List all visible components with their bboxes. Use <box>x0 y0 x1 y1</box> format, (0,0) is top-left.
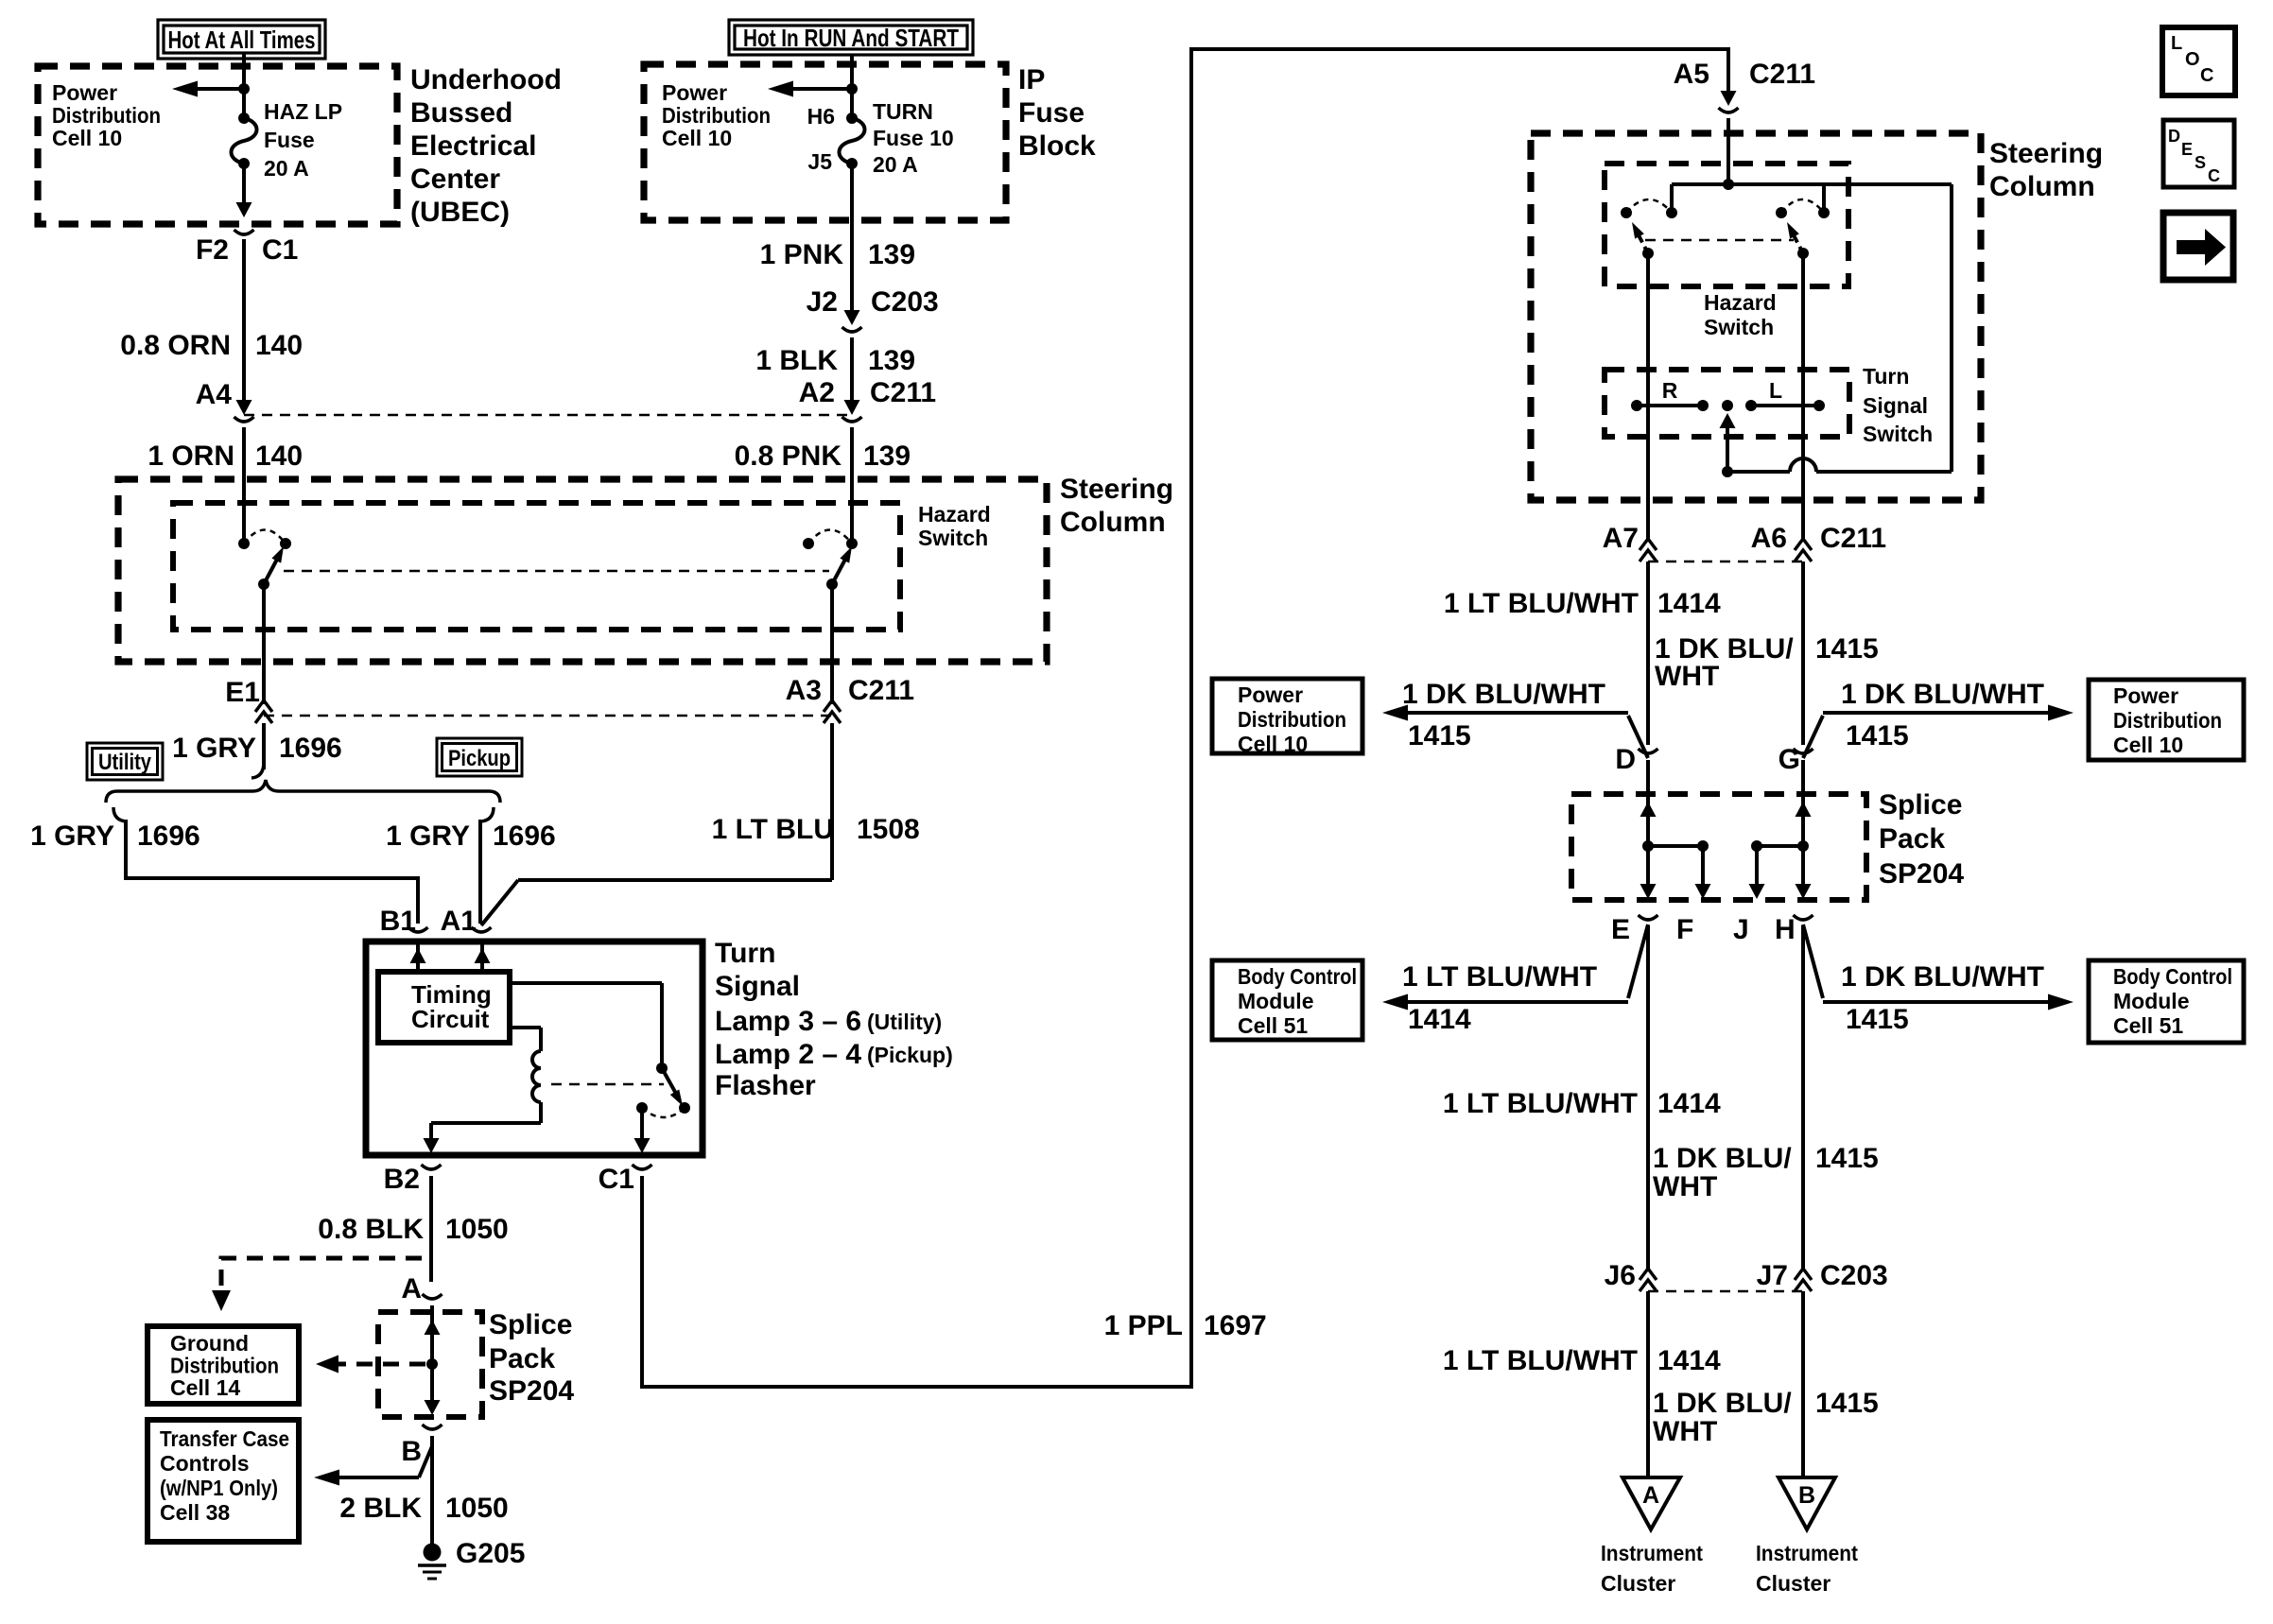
svg-text:Switch: Switch <box>1863 422 1933 446</box>
svg-text:Block: Block <box>1018 130 1096 162</box>
svg-text:Steering: Steering <box>1060 474 1173 505</box>
svg-text:140: 140 <box>255 441 303 472</box>
svg-text:Steering: Steering <box>1989 138 2103 169</box>
svg-text:Lamp 2 – 4: Lamp 2 – 4 <box>715 1039 861 1070</box>
svg-text:A: A <box>401 1273 422 1304</box>
svg-text:1 GRY: 1 GRY <box>172 733 256 764</box>
svg-text:C211: C211 <box>1820 523 1886 554</box>
svg-text:Switch: Switch <box>1704 315 1774 339</box>
svg-text:2 BLK: 2 BLK <box>339 1493 422 1524</box>
svg-text:139: 139 <box>868 345 915 376</box>
svg-text:Utility: Utility <box>98 750 152 775</box>
svg-text:(UBEC): (UBEC) <box>410 197 510 228</box>
svg-text:Cluster: Cluster <box>1756 1571 1831 1596</box>
svg-text:Pack: Pack <box>1879 823 1945 855</box>
svg-text:1 GRY: 1 GRY <box>386 821 470 852</box>
svg-text:Fuse: Fuse <box>264 128 315 152</box>
svg-text:Power: Power <box>2113 683 2178 708</box>
svg-text:J5: J5 <box>807 149 832 174</box>
svg-text:A1: A1 <box>441 906 477 937</box>
svg-text:Turn: Turn <box>715 938 775 969</box>
svg-text:1415: 1415 <box>1815 633 1879 665</box>
svg-text:Module: Module <box>2113 989 2190 1013</box>
svg-text:0.8 PNK: 0.8 PNK <box>735 441 842 472</box>
svg-text:1 DK BLU/WHT: 1 DK BLU/WHT <box>1402 679 1605 710</box>
svg-text:A4: A4 <box>196 379 233 410</box>
svg-text:E: E <box>1611 914 1630 945</box>
svg-text:Column: Column <box>1060 507 1166 538</box>
svg-text:1 DK BLU/: 1 DK BLU/ <box>1653 1143 1792 1174</box>
svg-text:Ground: Ground <box>170 1331 249 1356</box>
svg-text:Cluster: Cluster <box>1601 1571 1675 1596</box>
svg-text:1 DK BLU/: 1 DK BLU/ <box>1653 1388 1792 1419</box>
svg-text:A2: A2 <box>799 377 835 408</box>
svg-text:1415: 1415 <box>1846 720 1909 752</box>
svg-text:0.8 BLK: 0.8 BLK <box>318 1214 424 1245</box>
svg-text:Column: Column <box>1989 171 2095 202</box>
svg-text:Flasher: Flasher <box>715 1070 816 1101</box>
svg-text:(Pickup): (Pickup) <box>867 1043 953 1067</box>
svg-text:Circuit: Circuit <box>411 1005 490 1033</box>
svg-text:Cell 51: Cell 51 <box>1238 1013 1308 1038</box>
svg-text:Splice: Splice <box>1879 789 1962 821</box>
svg-text:Power: Power <box>1238 682 1303 707</box>
svg-text:S: S <box>2195 153 2206 172</box>
svg-text:Hazard: Hazard <box>1704 290 1777 315</box>
svg-text:C211: C211 <box>1749 59 1815 90</box>
svg-text:1697: 1697 <box>1204 1310 1267 1341</box>
svg-text:Power: Power <box>662 80 727 105</box>
svg-text:1050: 1050 <box>445 1493 509 1524</box>
svg-text:J: J <box>1733 914 1749 945</box>
svg-text:D: D <box>1615 744 1636 775</box>
svg-text:Electrical: Electrical <box>410 130 536 162</box>
svg-text:Pickup: Pickup <box>448 746 511 771</box>
svg-text:Underhood: Underhood <box>410 64 562 95</box>
svg-text:1 GRY: 1 GRY <box>30 821 114 852</box>
svg-text:1696: 1696 <box>279 733 342 764</box>
svg-text:F2: F2 <box>196 234 229 266</box>
svg-text:20 A: 20 A <box>873 152 918 177</box>
svg-text:1 PPL: 1 PPL <box>1104 1310 1183 1341</box>
svg-text:1 DK BLU/WHT: 1 DK BLU/WHT <box>1841 961 2044 993</box>
svg-text:1414: 1414 <box>1657 1345 1721 1376</box>
svg-text:Distribution: Distribution <box>2113 708 2222 733</box>
svg-text:C203: C203 <box>1820 1260 1888 1291</box>
svg-text:J2: J2 <box>807 286 838 318</box>
svg-text:F: F <box>1676 914 1693 945</box>
svg-text:Instrument: Instrument <box>1756 1541 1858 1565</box>
svg-text:Cell 51: Cell 51 <box>2113 1013 2183 1038</box>
svg-text:E1: E1 <box>225 677 260 708</box>
svg-text:Hot In RUN And START: Hot In RUN And START <box>743 24 959 52</box>
svg-text:Cell 10: Cell 10 <box>2113 733 2183 757</box>
svg-text:Body Control: Body Control <box>2113 964 2232 989</box>
svg-text:Distribution: Distribution <box>52 103 161 128</box>
svg-text:1 LT BLU/WHT: 1 LT BLU/WHT <box>1402 961 1597 993</box>
svg-text:TURN: TURN <box>873 99 933 124</box>
svg-text:(w/NP1 Only): (w/NP1 Only) <box>160 1476 278 1500</box>
svg-text:C: C <box>2208 166 2220 185</box>
svg-text:SP204: SP204 <box>1879 858 1964 890</box>
svg-text:C211: C211 <box>848 675 914 706</box>
svg-text:L: L <box>2171 33 2182 54</box>
svg-text:1414: 1414 <box>1657 1088 1721 1119</box>
svg-text:Signal: Signal <box>1863 393 1928 418</box>
svg-text:Splice: Splice <box>489 1309 572 1340</box>
svg-text:1415: 1415 <box>1815 1143 1879 1174</box>
svg-text:1508: 1508 <box>857 814 920 845</box>
svg-text:WHT: WHT <box>1655 661 1719 692</box>
svg-text:A3: A3 <box>786 675 822 706</box>
svg-text:Cell 38: Cell 38 <box>160 1500 230 1525</box>
svg-text:139: 139 <box>868 239 915 270</box>
svg-text:1696: 1696 <box>493 821 556 852</box>
svg-text:Controls: Controls <box>160 1451 250 1476</box>
svg-text:Hot At All Times: Hot At All Times <box>168 26 316 54</box>
svg-text:1415: 1415 <box>1815 1388 1879 1419</box>
svg-text:1415: 1415 <box>1846 1004 1909 1035</box>
svg-text:1 DK BLU/WHT: 1 DK BLU/WHT <box>1841 679 2044 710</box>
svg-text:1 BLK: 1 BLK <box>755 345 838 376</box>
svg-text:HAZ LP: HAZ LP <box>264 99 342 124</box>
svg-text:B2: B2 <box>384 1164 420 1195</box>
svg-text:Cell 10: Cell 10 <box>52 126 122 150</box>
svg-text:Fuse: Fuse <box>1018 97 1084 129</box>
svg-text:139: 139 <box>863 441 911 472</box>
svg-text:G: G <box>1778 744 1800 775</box>
svg-text:1050: 1050 <box>445 1214 509 1245</box>
svg-text:Distribution: Distribution <box>662 103 771 128</box>
svg-text:C1: C1 <box>599 1164 634 1195</box>
svg-text:1414: 1414 <box>1657 588 1721 619</box>
svg-text:Pack: Pack <box>489 1343 555 1374</box>
svg-text:Cell 10: Cell 10 <box>1238 732 1308 756</box>
svg-text:B: B <box>1798 1482 1815 1509</box>
svg-text:WHT: WHT <box>1653 1416 1717 1447</box>
svg-text:1 LT BLU/WHT: 1 LT BLU/WHT <box>1443 1345 1638 1376</box>
svg-text:Hazard: Hazard <box>918 502 991 527</box>
svg-text:1 LT BLU: 1 LT BLU <box>712 814 834 845</box>
svg-text:20 A: 20 A <box>264 156 309 181</box>
svg-text:Turn: Turn <box>1863 364 1909 389</box>
svg-text:Transfer Case: Transfer Case <box>160 1426 289 1451</box>
svg-text:J6: J6 <box>1605 1260 1636 1291</box>
svg-text:A6: A6 <box>1751 523 1787 554</box>
svg-text:SP204: SP204 <box>489 1375 574 1407</box>
svg-text:Module: Module <box>1238 989 1314 1013</box>
svg-text:Fuse 10: Fuse 10 <box>873 126 954 150</box>
svg-text:Signal: Signal <box>715 971 800 1002</box>
svg-text:Center: Center <box>410 164 500 195</box>
svg-text:G205: G205 <box>456 1538 525 1569</box>
svg-text:Body Control: Body Control <box>1238 964 1357 989</box>
svg-text:Power: Power <box>52 80 117 105</box>
svg-text:Cell 10: Cell 10 <box>662 126 732 150</box>
svg-text:WHT: WHT <box>1653 1171 1717 1202</box>
svg-text:D: D <box>2168 127 2180 146</box>
svg-text:Instrument: Instrument <box>1601 1541 1703 1565</box>
svg-text:L: L <box>1769 378 1782 403</box>
svg-text:1415: 1415 <box>1408 720 1471 752</box>
svg-text:1414: 1414 <box>1408 1004 1471 1035</box>
svg-text:1 LT BLU/WHT: 1 LT BLU/WHT <box>1443 1088 1638 1119</box>
svg-text:H: H <box>1775 914 1796 945</box>
svg-text:C1: C1 <box>262 234 298 266</box>
svg-text:1 PNK: 1 PNK <box>760 239 844 270</box>
svg-text:J7: J7 <box>1757 1260 1788 1291</box>
svg-text:B1: B1 <box>380 906 416 937</box>
svg-text:A5: A5 <box>1674 59 1709 90</box>
svg-text:O: O <box>2185 49 2200 70</box>
svg-text:Cell 14: Cell 14 <box>170 1375 240 1400</box>
svg-text:C: C <box>2200 65 2213 86</box>
svg-text:A: A <box>1642 1482 1659 1509</box>
svg-text:R: R <box>1662 378 1678 403</box>
svg-text:140: 140 <box>255 330 303 361</box>
svg-text:0.8 ORN: 0.8 ORN <box>120 330 231 361</box>
svg-text:Switch: Switch <box>918 526 988 550</box>
svg-text:H6: H6 <box>807 104 835 129</box>
svg-text:Lamp 3 – 6: Lamp 3 – 6 <box>715 1006 861 1037</box>
svg-text:C203: C203 <box>871 286 939 318</box>
svg-text:Bussed: Bussed <box>410 97 512 129</box>
svg-text:(Utility): (Utility) <box>867 1010 942 1034</box>
svg-text:1 LT BLU/WHT: 1 LT BLU/WHT <box>1444 588 1639 619</box>
svg-text:1696: 1696 <box>137 821 200 852</box>
svg-text:A7: A7 <box>1603 523 1639 554</box>
svg-text:IP: IP <box>1018 64 1045 95</box>
svg-text:E: E <box>2181 140 2193 159</box>
svg-text:1 ORN: 1 ORN <box>147 441 234 472</box>
svg-text:C211: C211 <box>870 377 936 408</box>
svg-text:Distribution: Distribution <box>170 1354 279 1378</box>
svg-text:Distribution: Distribution <box>1238 707 1346 732</box>
svg-text:B: B <box>401 1436 422 1467</box>
